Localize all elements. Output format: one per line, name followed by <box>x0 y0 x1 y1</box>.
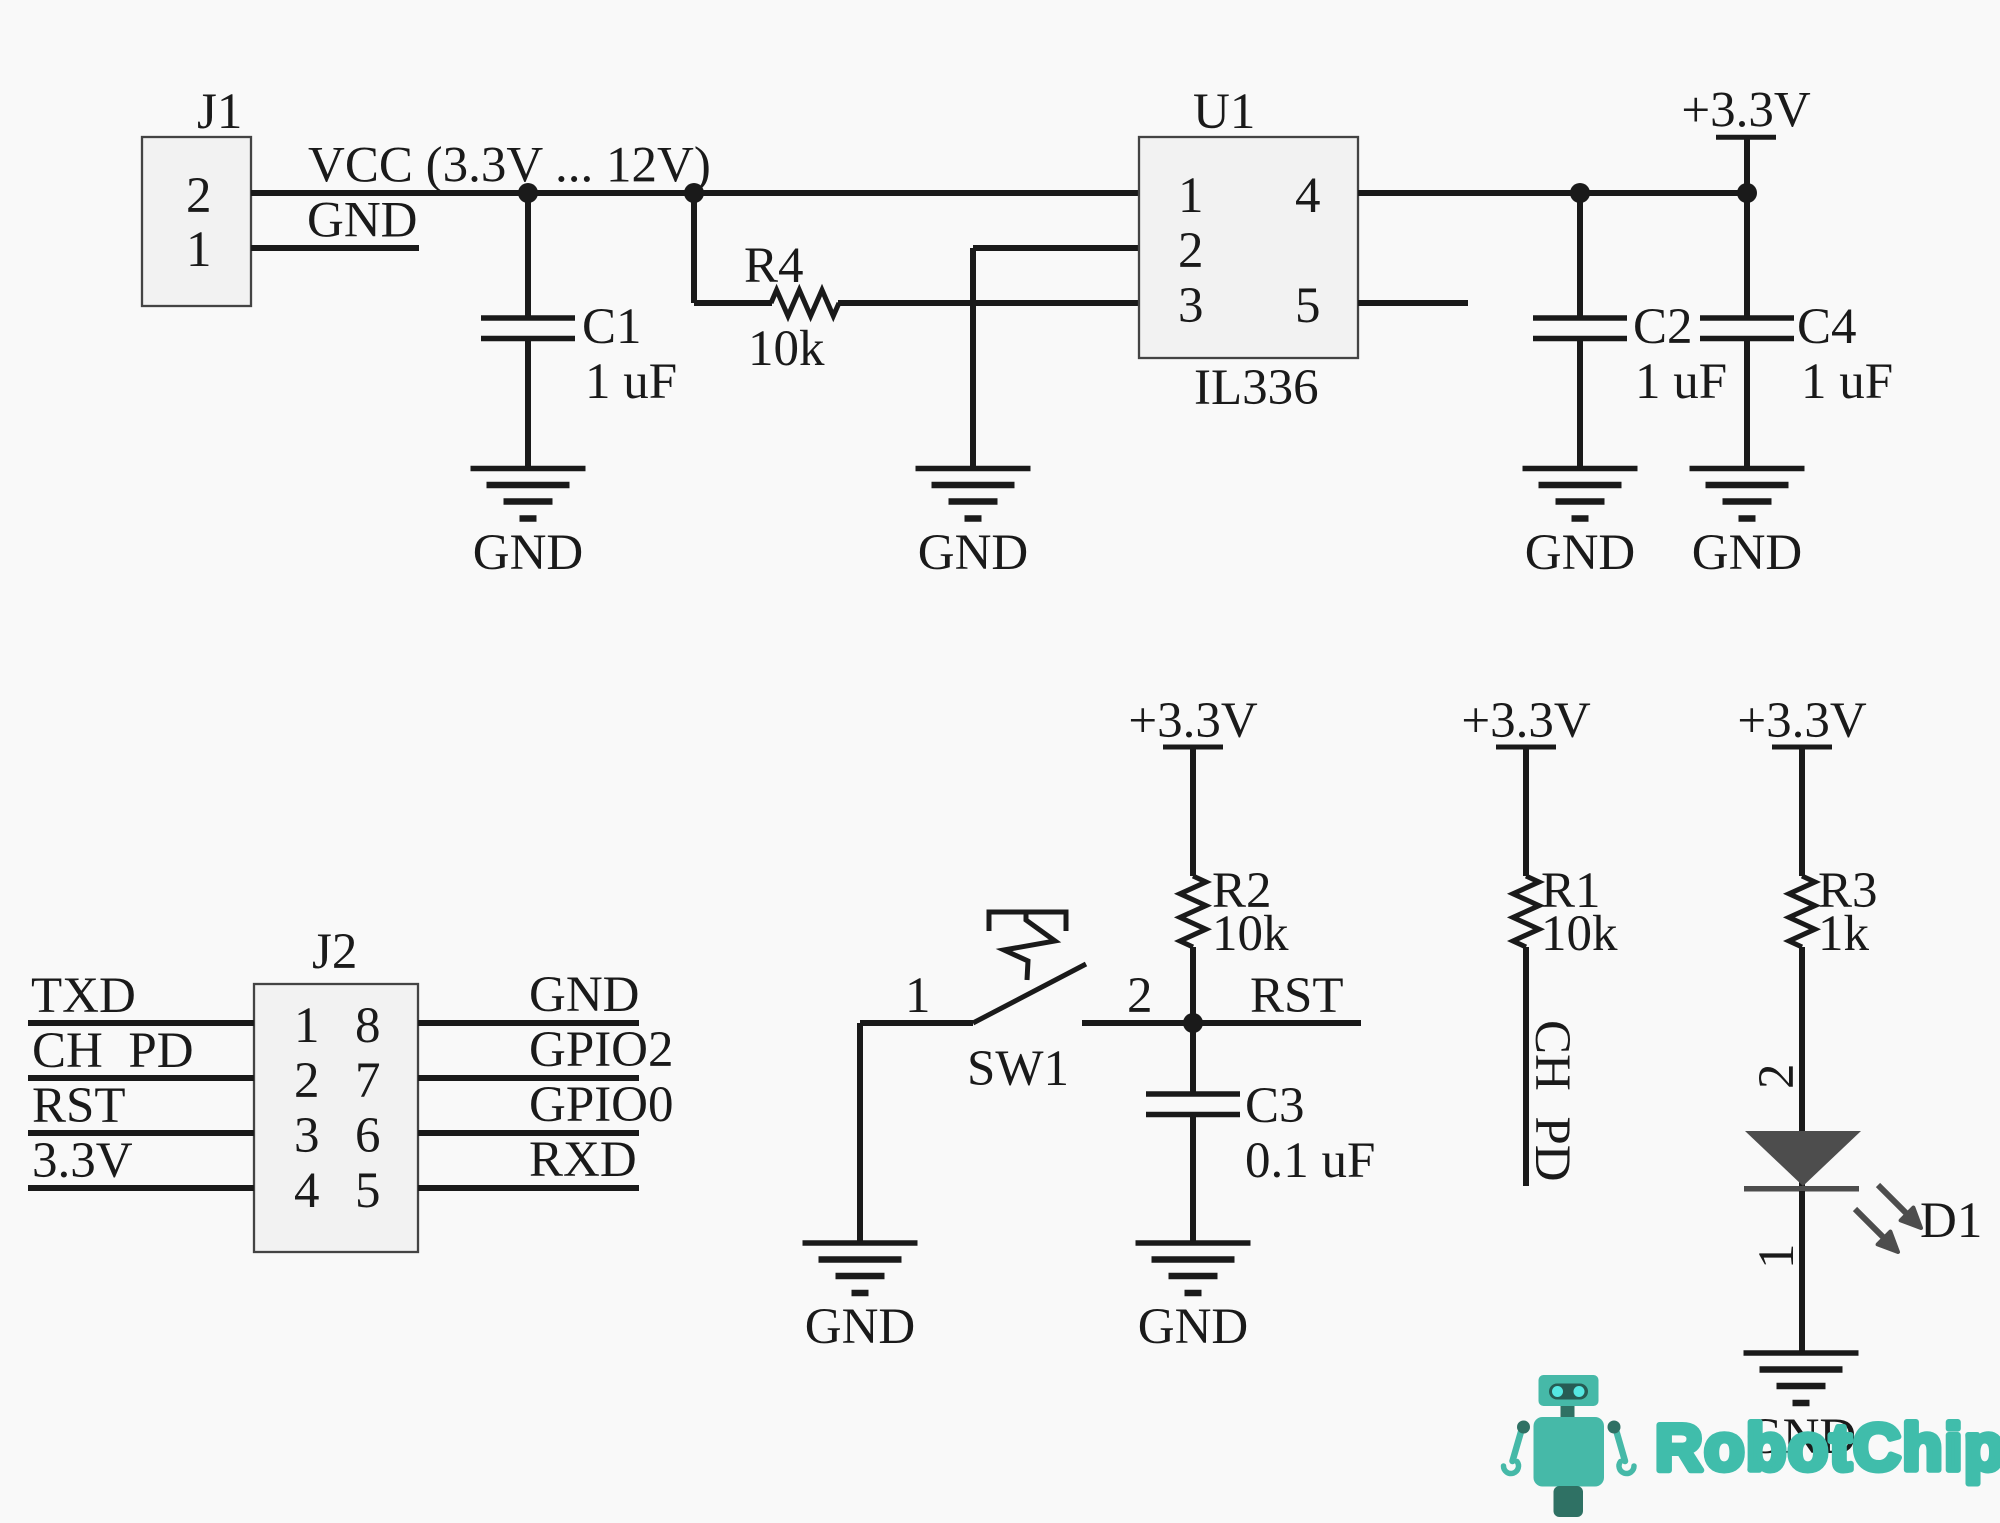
wire 3.3V to J2 pin4 <box>28 1185 254 1191</box>
wire +3.3V down through junction to C4 <box>1744 139 1750 316</box>
robot right eye <box>1574 1386 1585 1397</box>
ground below C3 <box>1136 1243 1251 1293</box>
robot right shoulder <box>1608 1421 1621 1434</box>
svg-text:RobotChip: RobotChip <box>1655 1410 2000 1484</box>
wire U1 pin2 to ground branch <box>973 245 1139 251</box>
wire C1 lower lead <box>525 339 531 469</box>
switch SW1 wire pin1 <box>860 1020 973 1026</box>
node junction at C1 <box>518 183 538 203</box>
wire ground branch vertical <box>970 248 976 469</box>
wire VCC net: J1 pin2 to U1 pin1 <box>251 190 1139 196</box>
svg-text:+3.3V: +3.3V <box>1128 693 1258 749</box>
LED D1 triangle <box>1745 1131 1861 1186</box>
logo robot icon <box>1504 1375 1635 1517</box>
svg-text:1: 1 <box>186 222 212 278</box>
wire C2 upper lead <box>1577 193 1583 316</box>
wire J2 pin8 GND <box>418 1020 639 1026</box>
svg-text:8: 8 <box>355 998 381 1054</box>
wire +3.3V to R2 <box>1190 749 1196 876</box>
wire RST net <box>1082 1020 1361 1026</box>
wire GND stub from J1 pin1 <box>251 245 419 251</box>
resistor R2 <box>1180 876 1206 947</box>
svg-text:C2: C2 <box>1633 299 1693 355</box>
svg-text:IL336: IL336 <box>1194 360 1319 416</box>
svg-text:GPIO0: GPIO0 <box>529 1077 674 1133</box>
robot leg <box>1554 1486 1584 1517</box>
robot left hand <box>1504 1462 1519 1474</box>
svg-text:CH PD: CH PD <box>1524 1020 1580 1182</box>
LED D1 light arrow lower <box>1855 1209 1898 1252</box>
robot left shoulder <box>1517 1421 1530 1434</box>
wire C4 lower lead <box>1744 339 1750 469</box>
svg-text:5: 5 <box>1295 278 1321 334</box>
LED D1 cathode bar <box>1744 1186 1859 1192</box>
regulator U1 box <box>1139 137 1358 358</box>
wire RST to J2 pin3 <box>28 1130 254 1136</box>
wire TXD to J2 pin1 <box>28 1020 254 1026</box>
svg-text:GND: GND <box>307 193 418 249</box>
svg-text:RST: RST <box>32 1078 126 1134</box>
svg-text:GND: GND <box>918 525 1029 581</box>
wire to R4 <box>694 300 772 306</box>
svg-text:+3.3V: +3.3V <box>1737 693 1867 749</box>
robot left arm <box>1513 1430 1522 1461</box>
connector J2 box <box>254 984 418 1252</box>
svg-text:+3.3V: +3.3V <box>1681 83 1811 139</box>
ground below C4 <box>1690 469 1805 519</box>
capacitor C4 <box>1700 318 1794 339</box>
switch SW1 blade <box>973 964 1086 1023</box>
wire C1 upper lead <box>525 193 531 316</box>
svg-text:+3.3V: +3.3V <box>1461 693 1591 749</box>
wire R4 to U1 pin3 <box>838 300 1139 306</box>
capacitor C1 <box>481 318 575 339</box>
svg-text:1: 1 <box>1749 1244 1805 1270</box>
resistor R1 <box>1513 876 1539 947</box>
wire C3 lower lead <box>1190 1115 1196 1244</box>
svg-text:0.1 uF: 0.1 uF <box>1245 1133 1375 1189</box>
svg-text:C3: C3 <box>1245 1078 1305 1134</box>
wire J2 pin7 GPIO2 <box>418 1075 639 1081</box>
svg-text:7: 7 <box>355 1053 381 1109</box>
wire junction down to R4 row <box>691 193 697 303</box>
svg-text:1 uF: 1 uF <box>585 354 677 410</box>
connector J1 box <box>142 137 251 306</box>
robot right hand <box>1619 1462 1634 1474</box>
svg-text:GND: GND <box>529 967 640 1023</box>
svg-text:10k: 10k <box>1541 906 1618 962</box>
svg-text:2: 2 <box>186 168 212 224</box>
svg-text:VCC (3.3V ... 12V): VCC (3.3V ... 12V) <box>308 138 711 194</box>
svg-text:1: 1 <box>294 998 320 1054</box>
ground below D1 <box>1744 1353 1859 1403</box>
power +3.3V above R3 <box>1772 746 1832 748</box>
wire R2 to RST junction <box>1190 947 1196 1023</box>
svg-text:GND: GND <box>805 1299 916 1355</box>
svg-text:GPIO2: GPIO2 <box>529 1022 674 1078</box>
svg-text:GND: GND <box>473 525 584 581</box>
svg-text:1: 1 <box>905 968 931 1024</box>
svg-text:6: 6 <box>355 1108 381 1164</box>
svg-text:C1: C1 <box>582 299 642 355</box>
svg-text:1: 1 <box>1178 168 1204 224</box>
robot neck <box>1561 1404 1575 1418</box>
svg-text:4: 4 <box>294 1163 320 1219</box>
svg-text:3: 3 <box>1178 278 1204 334</box>
wire +3.3V to R1 <box>1523 749 1529 876</box>
LED D1 light arrow upper <box>1878 1185 1921 1228</box>
svg-text:1k: 1k <box>1818 906 1870 962</box>
svg-text:2: 2 <box>1749 1064 1805 1090</box>
svg-text:C4: C4 <box>1797 299 1857 355</box>
ground below SW1 <box>803 1243 918 1293</box>
power +3.3V symbol top right <box>1716 136 1776 138</box>
svg-text:U1: U1 <box>1193 84 1255 140</box>
robot right arm <box>1616 1430 1625 1461</box>
node junction at C2 <box>1570 183 1590 203</box>
svg-text:SW1: SW1 <box>967 1041 1069 1097</box>
capacitor C2 <box>1533 318 1627 339</box>
wire CH_PD to J2 pin2 <box>28 1075 254 1081</box>
resistor R4 <box>771 290 839 316</box>
svg-text:J1: J1 <box>197 84 242 140</box>
robot head <box>1539 1375 1599 1406</box>
svg-text:RST: RST <box>1250 968 1344 1024</box>
svg-text:J2: J2 <box>312 924 357 980</box>
resistor R3 <box>1789 876 1815 947</box>
node junction at C4 <box>1737 183 1757 203</box>
switch SW1 actuator spring <box>1004 912 1055 980</box>
svg-text:3: 3 <box>294 1108 320 1164</box>
svg-text:4: 4 <box>1295 168 1321 224</box>
svg-text:10k: 10k <box>748 321 825 377</box>
svg-text:R4: R4 <box>744 238 804 294</box>
wire J2 pin5 RXD <box>418 1185 639 1191</box>
wire U1 pin5 stub <box>1358 300 1468 306</box>
svg-text:10k: 10k <box>1212 906 1289 962</box>
node junction RST/C3 <box>1183 1013 1203 1033</box>
wire LED cathode to ground <box>1799 1191 1805 1353</box>
power +3.3V above R1 <box>1496 746 1556 748</box>
wire R1 to CH_PD <box>1523 947 1529 1186</box>
wire C2 lower lead <box>1577 339 1583 469</box>
svg-text:2: 2 <box>294 1053 320 1109</box>
svg-text:D1: D1 <box>1920 1193 1982 1249</box>
svg-text:3.3V: 3.3V <box>32 1133 133 1189</box>
switch SW1 actuator bracket <box>989 912 1066 931</box>
wire +3.3V to R3 <box>1799 749 1805 876</box>
wire SW1 pin1 to ground <box>857 1023 863 1243</box>
robot left eye <box>1552 1386 1563 1397</box>
wire C3 upper lead <box>1190 1023 1196 1093</box>
svg-text:1 uF: 1 uF <box>1801 354 1893 410</box>
node junction at R4 branch <box>684 183 704 203</box>
svg-text:GND: GND <box>1692 525 1803 581</box>
svg-text:TXD: TXD <box>31 968 136 1024</box>
svg-text:2: 2 <box>1127 968 1153 1024</box>
svg-text:5: 5 <box>355 1163 381 1219</box>
ground below C1 <box>471 469 586 519</box>
svg-text:2: 2 <box>1178 223 1204 279</box>
ground below C2 <box>1523 469 1638 519</box>
svg-text:GND: GND <box>1525 525 1636 581</box>
capacitor C3 <box>1146 1094 1240 1115</box>
wire R3 to LED anode <box>1799 947 1805 1186</box>
robot body <box>1534 1417 1605 1487</box>
wire U1 pin4 to +3.3V rail <box>1358 190 1747 196</box>
ground below U1 pin2 <box>916 469 1031 519</box>
power +3.3V above R2 <box>1163 746 1223 748</box>
svg-text:1 uF: 1 uF <box>1635 354 1727 410</box>
robot face band <box>1549 1384 1588 1400</box>
wire J2 pin6 GPIO0 <box>418 1130 639 1136</box>
svg-text:CH PD: CH PD <box>32 1023 194 1079</box>
svg-text:RXD: RXD <box>529 1132 637 1188</box>
svg-text:GND: GND <box>1138 1299 1249 1355</box>
